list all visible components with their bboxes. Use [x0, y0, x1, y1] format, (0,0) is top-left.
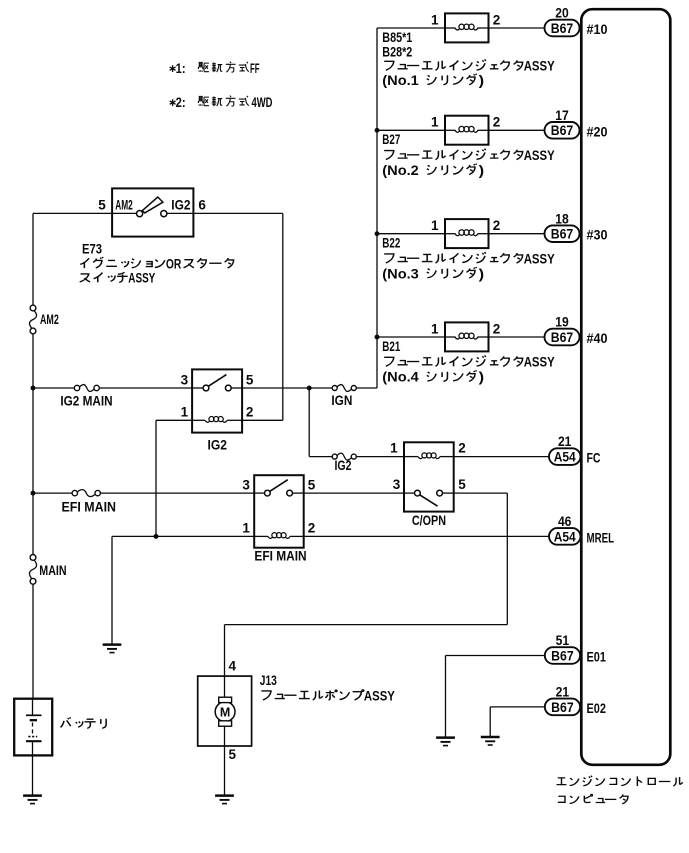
- wire down to relay IG2 coil pin2: [282, 213, 284, 420]
- relay C/OPN switch contacts pins 3-5: [404, 492, 415, 494]
- junction left column / EFI MAIN row: [31, 491, 36, 496]
- junction IGN/IG2 branch: [307, 386, 312, 391]
- svg-text:IG2: IG2: [335, 458, 352, 473]
- connector oval B67 row #30: [545, 225, 580, 242]
- ground E01: [436, 736, 455, 739]
- fuse AM2: [30, 305, 36, 311]
- svg-text:AM2: AM2: [40, 312, 59, 327]
- wire IG2 MAIN fuse to relay IG2 pin3: [99, 387, 192, 389]
- svg-text:A54: A54: [554, 450, 576, 466]
- svg-text:IGN: IGN: [331, 393, 352, 408]
- connector oval B67 row #20: [545, 122, 580, 139]
- svg-text:ASSY: ASSY: [524, 59, 555, 74]
- svg-text:5: 5: [98, 198, 106, 213]
- junction bus/injector No.2: [375, 128, 380, 133]
- svg-text:): ): [479, 73, 485, 88]
- connector oval A54 FC: [549, 448, 581, 465]
- svg-text:A54: A54: [554, 529, 576, 545]
- wire relay EFI MAIN pin5 to relay C/OPN pin3: [304, 492, 404, 494]
- wire bus to injector No.2 pin1: [377, 129, 445, 131]
- fuel pump J13 box: [198, 676, 252, 746]
- ground E02: [481, 736, 500, 739]
- injector No.3 name フューエルインジェクタASSY: [384, 254, 394, 263]
- connector oval A54 MREL: [549, 528, 581, 545]
- ECU label エンジンコントロール: [557, 778, 567, 785]
- wire relay IG2 pin5 to IGN junction: [242, 387, 309, 389]
- relay EFI MAIN coil pins 1-2: [254, 535, 268, 537]
- svg-text:FF: FF: [250, 61, 260, 76]
- svg-text:J13: J13: [260, 673, 277, 688]
- fuse IG2: [332, 454, 337, 459]
- svg-text:1:: 1:: [176, 61, 186, 76]
- svg-text:1: 1: [431, 218, 439, 233]
- svg-text:B67: B67: [551, 123, 574, 139]
- relay IG2 box: [192, 369, 242, 432]
- wire injector supply bus vertical: [376, 28, 378, 388]
- wire injector No.4 pin2 to ECU: [489, 336, 545, 338]
- wire EFI MAIN fuse to relay EFI MAIN pin3: [100, 492, 254, 494]
- svg-text:#40: #40: [587, 331, 608, 346]
- svg-text:1: 1: [242, 521, 250, 536]
- svg-text:ASSY: ASSY: [364, 688, 395, 703]
- wire left to fuel pump column: [225, 624, 508, 626]
- svg-text:MREL: MREL: [587, 530, 615, 545]
- svg-text:ASSY: ASSY: [524, 251, 555, 266]
- svg-text:21: 21: [556, 684, 570, 699]
- svg-text:OR: OR: [166, 256, 182, 271]
- ground EFI relay: [103, 643, 122, 646]
- wire injector No.1 pin2 to ECU: [489, 27, 545, 29]
- svg-text:ASSY: ASSY: [128, 271, 155, 286]
- svg-text:EFI MAIN: EFI MAIN: [62, 499, 117, 514]
- J13 name フューエルポンプASSY: [261, 691, 271, 700]
- svg-text:B67: B67: [551, 648, 574, 664]
- svg-text:B67: B67: [551, 21, 574, 37]
- fuse EFI MAIN: [72, 490, 77, 495]
- wire AM2 fuse to MAIN fuse: [32, 334, 34, 555]
- battery box: [14, 699, 52, 756]
- wire J13 pin5 to ground: [224, 746, 226, 795]
- svg-text:4: 4: [229, 659, 237, 674]
- ground battery: [23, 794, 42, 797]
- svg-text:MAIN: MAIN: [39, 563, 66, 578]
- svg-text:E73: E73: [82, 241, 102, 256]
- svg-text:1: 1: [431, 321, 439, 336]
- svg-text:): ): [479, 163, 485, 178]
- svg-text:5: 5: [308, 478, 316, 493]
- wire relay C/OPN pin5 to corner: [454, 492, 508, 494]
- svg-text:#20: #20: [587, 124, 608, 139]
- injector No.1 name フューエルインジェクタASSY: [384, 61, 394, 70]
- wire E73 pin5 down to battery (left column): [32, 213, 34, 305]
- svg-text:3: 3: [242, 478, 250, 493]
- E73 name イグニッションORスタータ: [80, 258, 89, 268]
- relay C/OPN coil pins 1-2: [404, 456, 418, 458]
- battery cell symbol: [32, 699, 34, 716]
- relay C/OPN box: [404, 442, 454, 511]
- svg-text:5: 5: [229, 747, 237, 762]
- injector No.2 name フューエルインジェクタASSY: [384, 151, 394, 160]
- ground fuel pump: [215, 794, 234, 797]
- svg-text:E01: E01: [587, 650, 607, 665]
- svg-text:46: 46: [558, 514, 572, 529]
- svg-text:IG2: IG2: [208, 438, 228, 453]
- wire bus to injector No.4 pin1: [377, 336, 445, 338]
- wire battery to ground: [32, 755, 34, 795]
- fuse MAIN: [30, 555, 36, 561]
- injector B22 coil box (No.3 cylinder): [445, 219, 489, 248]
- svg-text:#10: #10: [587, 22, 608, 37]
- svg-text:2: 2: [308, 521, 316, 536]
- wire left column to EFI MAIN fuse: [33, 492, 72, 494]
- svg-text:3: 3: [181, 373, 189, 388]
- svg-text:M: M: [220, 705, 230, 719]
- injector No.4 name フューエルインジェクタASSY: [384, 357, 394, 366]
- ECU box - engine control computer: [581, 9, 670, 765]
- note *2 drive type 4WD: [172, 99, 174, 106]
- wire battery column to E73 pin5: [33, 212, 112, 214]
- svg-text:(No.2: (No.2: [382, 163, 419, 178]
- motor M symbol J13: [224, 676, 226, 697]
- svg-text:): ): [479, 266, 485, 281]
- wire relay EFI MAIN pin1 left to ground column: [112, 535, 254, 537]
- svg-text:19: 19: [555, 315, 569, 330]
- svg-text:1: 1: [431, 12, 439, 27]
- ignition switch E73 box: [112, 188, 193, 236]
- connector oval B67 row #40: [545, 329, 580, 346]
- svg-text:1: 1: [390, 441, 398, 456]
- relay EFI MAIN switch contacts pins 3-5: [254, 492, 264, 494]
- wire MAIN fuse to battery: [32, 584, 34, 699]
- wire left column to IG2 MAIN fuse: [33, 387, 74, 389]
- svg-text:2: 2: [493, 218, 501, 233]
- svg-text:18: 18: [555, 211, 569, 226]
- wire IG2 fuse to relay C/OPN pin1: [356, 456, 404, 458]
- injector B21 coil box (No.4 cylinder): [445, 322, 489, 351]
- injector B85 coil box (No.1 cylinder): [445, 13, 489, 42]
- wire bus to injector No.1 pin1: [377, 27, 445, 29]
- svg-text:1: 1: [431, 115, 439, 130]
- svg-text:ASSY: ASSY: [524, 148, 555, 163]
- svg-text:IG2 MAIN: IG2 MAIN: [60, 394, 112, 409]
- svg-text:3: 3: [393, 477, 401, 492]
- connector oval B67 row #10: [545, 20, 580, 37]
- svg-text:6: 6: [198, 198, 206, 213]
- fuse IG2 MAIN: [74, 385, 79, 390]
- svg-text:): ): [479, 370, 485, 385]
- svg-text:FC: FC: [587, 451, 601, 466]
- svg-text:2: 2: [493, 321, 501, 336]
- svg-text:5: 5: [246, 373, 254, 388]
- svg-text:B67: B67: [551, 227, 574, 243]
- junction bus/injector No.3: [375, 231, 380, 236]
- wire E73 pin6 right: [193, 212, 282, 214]
- battery label バッテリ: [61, 717, 71, 727]
- wire down to J13 pin4: [224, 625, 226, 677]
- svg-text:AM2: AM2: [115, 198, 133, 213]
- wire bus to injector No.3 pin1: [377, 233, 445, 235]
- svg-text:B22: B22: [382, 236, 400, 251]
- svg-text:B85*1: B85*1: [382, 30, 412, 45]
- svg-text:#30: #30: [587, 228, 608, 243]
- svg-text:2:: 2:: [176, 95, 186, 110]
- svg-text:B27: B27: [382, 132, 400, 147]
- svg-text:5: 5: [458, 477, 466, 492]
- E73 switch contacts and lever: [112, 212, 137, 214]
- svg-text:4WD: 4WD: [252, 95, 273, 110]
- wire injector No.3 pin2 to ECU: [489, 233, 545, 235]
- junction left column / IG2 MAIN row: [31, 386, 36, 391]
- svg-text:20: 20: [555, 6, 569, 21]
- wire E01 to ground: [446, 655, 545, 657]
- svg-text:2: 2: [493, 12, 501, 27]
- note *1 drive type FF: [172, 65, 174, 72]
- svg-text:17: 17: [555, 108, 569, 123]
- svg-text:ASSY: ASSY: [524, 355, 555, 370]
- wire E02 to ground: [490, 706, 545, 708]
- injector B27 coil box (No.2 cylinder): [445, 116, 489, 145]
- svg-text:2: 2: [493, 115, 501, 130]
- svg-text:C/OPN: C/OPN: [412, 513, 446, 528]
- svg-text:2: 2: [246, 405, 254, 420]
- wire relay IG2 pin1 left and down: [156, 419, 192, 421]
- relay EFI MAIN box: [254, 475, 304, 548]
- wire relay EFI MAIN pin2 to MREL: [304, 535, 549, 537]
- svg-text:IG2: IG2: [171, 198, 190, 213]
- wire IGN fuse to injector bus: [356, 387, 377, 389]
- ECU label コンピュータ: [558, 796, 565, 802]
- relay IG2 switch contacts pins 3-5: [192, 387, 203, 389]
- svg-text:1: 1: [181, 405, 189, 420]
- E73 name スイッチASSY: [80, 274, 90, 282]
- junction bus/injector No.4: [375, 335, 380, 340]
- wire down right side: [506, 493, 508, 624]
- svg-text:(No.4: (No.4: [382, 370, 419, 385]
- svg-text:21: 21: [558, 434, 572, 449]
- svg-text:51: 51: [556, 633, 570, 648]
- connector oval B67 E02: [545, 699, 580, 716]
- relay IG2 coil pins 1-2: [192, 419, 205, 421]
- svg-text:E02: E02: [587, 701, 607, 716]
- svg-text:EFI MAIN: EFI MAIN: [254, 548, 306, 563]
- wire injector No.2 pin2 to ECU: [489, 129, 545, 131]
- junction IG2 coil feed: [154, 534, 159, 539]
- svg-text:B67: B67: [551, 700, 574, 716]
- fuse IGN: [332, 386, 337, 391]
- wire IGN junction down to IG2 fuse: [308, 388, 310, 457]
- svg-text:B21: B21: [382, 339, 400, 354]
- svg-text:(No.3: (No.3: [382, 266, 419, 281]
- svg-text:B28*2: B28*2: [382, 44, 412, 59]
- wire relay C/OPN coil pin2 to FC: [454, 456, 549, 458]
- svg-text:(No.1: (No.1: [382, 73, 419, 88]
- svg-text:2: 2: [458, 441, 466, 456]
- wire down to ground: [111, 536, 113, 643]
- svg-text:B67: B67: [551, 330, 574, 346]
- connector oval B67 E01: [545, 647, 580, 664]
